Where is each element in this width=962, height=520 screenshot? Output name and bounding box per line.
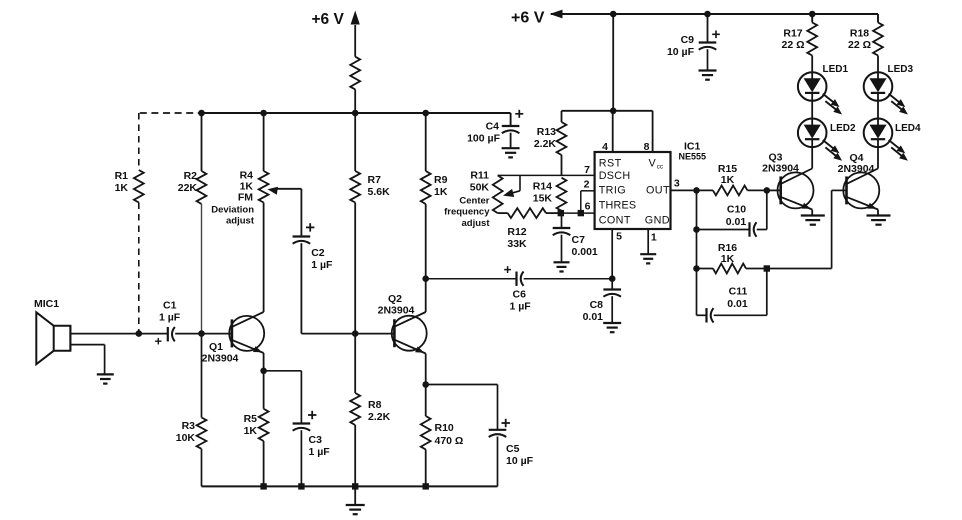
wire Q2 emitter to C5: [426, 384, 498, 386]
svg-text:C3: C3: [309, 434, 323, 446]
wire R18 to LED3: [877, 56, 879, 73]
transistor Q3 2N3904: [778, 172, 814, 208]
wire top rail: [202, 112, 511, 114]
wire top rail dashed segment: [140, 112, 202, 114]
svg-text:1 µF: 1 µF: [510, 301, 532, 313]
svg-text:LED4: LED4: [895, 123, 921, 134]
node R15/C10: [764, 187, 771, 194]
svg-text:50K: 50K: [470, 182, 490, 194]
wire pin1 stub: [647, 229, 649, 254]
ground C9: [707, 49, 709, 70]
svg-text:R1: R1: [115, 170, 129, 182]
resistor R15 1K: [697, 189, 714, 191]
svg-text:C10: C10: [727, 204, 746, 216]
svg-text:R14: R14: [533, 181, 552, 193]
svg-text:cc: cc: [657, 163, 664, 170]
wire +6V drop to pin4/8: [612, 14, 614, 111]
wire bottom rail: [202, 485, 498, 487]
ground bottom rail: [354, 486, 356, 504]
svg-text:2N3904: 2N3904: [762, 163, 799, 175]
resistor unlabeled (supply): [350, 57, 360, 90]
svg-text:C4: C4: [486, 121, 500, 133]
svg-text:5.6K: 5.6K: [368, 186, 391, 198]
svg-text:Center: Center: [459, 196, 489, 207]
IC U1 NE555 box: [595, 152, 671, 229]
node TRIG stub: [578, 210, 584, 216]
svg-text:NE555: NE555: [679, 152, 707, 162]
svg-text:LED1: LED1: [823, 64, 849, 75]
wire Q2 emitter down: [425, 354, 427, 385]
svg-text:1K: 1K: [721, 174, 735, 186]
svg-text:2.2K: 2.2K: [368, 411, 391, 423]
svg-text:LED3: LED3: [888, 64, 914, 75]
svg-text:6: 6: [585, 201, 591, 213]
capacitor C10 0.01: [697, 229, 750, 231]
node C6/C8/pin5: [609, 275, 616, 282]
resistor R13 2.2K: [561, 111, 563, 122]
svg-text:1 µF: 1 µF: [159, 312, 181, 324]
wire R17 to LED1: [811, 56, 813, 73]
node bottom R8 ground: [352, 483, 358, 489]
resistor R1 1K (dashed leads): [138, 113, 140, 170]
svg-text:R9: R9: [434, 174, 448, 186]
node Q2 base: [352, 330, 359, 337]
wire MIC1 top lead: [70, 333, 138, 335]
svg-text:8: 8: [644, 141, 650, 153]
svg-text:R17: R17: [783, 28, 802, 40]
wire pin 7 DSCH row: [498, 174, 595, 176]
node R1-mic: [136, 330, 143, 337]
potentiometer R4 1K FM Deviation adjust: [263, 113, 265, 171]
svg-text:C8: C8: [590, 299, 604, 311]
svg-text:R10: R10: [435, 422, 454, 434]
wire pin8 top link: [562, 110, 653, 112]
wire pin2 TRIG stub: [580, 191, 582, 213]
potentiometer R11 50K Center frequency adjust: [493, 175, 503, 213]
wire C6 to C8 node: [524, 278, 613, 280]
svg-text:0.001: 0.001: [572, 246, 598, 258]
capacitor C1 1 uF: [139, 333, 168, 335]
node rail-R9: [422, 110, 429, 117]
capacitor C2 1 uF: [293, 235, 311, 237]
node rail R17: [809, 11, 816, 18]
LED LED4: [864, 119, 893, 148]
wire OUT node down: [696, 190, 698, 315]
wiper arrow R4: [268, 187, 279, 195]
svg-text:2N3904: 2N3904: [202, 353, 239, 365]
svg-text:R8: R8: [368, 399, 382, 411]
capacitor C5 10 uF: [489, 429, 507, 431]
svg-text:+6 V: +6 V: [312, 11, 345, 28]
wire R16 row to Q4 base column: [767, 268, 832, 270]
svg-text:5: 5: [616, 231, 622, 243]
resistor R7 5.6K: [354, 113, 356, 171]
node Q1 base / R2 R3: [198, 330, 205, 337]
svg-text:Q2: Q2: [388, 293, 402, 305]
svg-text:OUT: OUT: [646, 184, 670, 196]
node Q2 emitter: [422, 381, 429, 388]
wire R2 to base node: [201, 204, 203, 334]
svg-text:FM: FM: [238, 192, 253, 204]
svg-text:15K: 15K: [533, 193, 553, 205]
svg-text:RST: RST: [599, 158, 622, 170]
svg-text:2: 2: [584, 179, 590, 191]
svg-text:33K: 33K: [507, 238, 527, 250]
svg-text:7: 7: [584, 164, 590, 176]
svg-text:C6: C6: [513, 289, 527, 301]
svg-text:10K: 10K: [176, 432, 196, 444]
svg-text:22 Ω: 22 Ω: [848, 39, 871, 51]
capacitor C11 0.01: [697, 314, 707, 316]
wire Q4 base link: [832, 189, 847, 191]
node rail-R4: [260, 110, 267, 117]
svg-text:0.01: 0.01: [727, 298, 748, 310]
capacitor C9 10 uF: [707, 14, 709, 43]
transistor Q4 2N3904: [843, 172, 879, 208]
resistor R3 10K: [201, 334, 203, 418]
svg-text:22K: 22K: [178, 182, 198, 194]
svg-text:1: 1: [651, 232, 657, 244]
transistor Q2 2N3904: [392, 316, 427, 351]
ground C8: [611, 296, 613, 322]
wire LED4 to Q4 collector: [877, 147, 879, 168]
svg-text:C11: C11: [729, 286, 748, 298]
ground MIC1: [97, 373, 114, 375]
resistor R12 33K: [498, 212, 508, 214]
svg-text:4: 4: [602, 141, 608, 153]
svg-text:1 µF: 1 µF: [309, 446, 331, 458]
microphone MIC1: [36, 312, 70, 364]
wire top-right +6V rail: [551, 13, 878, 15]
wire LED2 to Q3 collector: [811, 147, 813, 168]
svg-text:1K: 1K: [244, 425, 258, 437]
wire C1 to Q1 base: [175, 333, 232, 335]
svg-text:22 Ω: 22 Ω: [781, 39, 804, 51]
wire +6V arrow up: [354, 25, 356, 57]
node rail pin4/8 drop: [610, 11, 617, 18]
svg-text:GND: GND: [645, 214, 670, 226]
svg-text:10 µF: 10 µF: [667, 46, 695, 58]
resistor R17 22 ohm: [811, 14, 813, 23]
node C10 left: [693, 226, 700, 233]
svg-text:R18: R18: [850, 28, 869, 40]
ground Q3 emitter: [811, 210, 813, 216]
svg-text:0.01: 0.01: [726, 216, 747, 228]
svg-text:DSCH: DSCH: [599, 170, 631, 182]
wire Q1 emitter to C3: [264, 370, 302, 372]
capacitor C6 1 uF: [515, 272, 517, 286]
transistor Q1 2N3904: [229, 316, 264, 351]
svg-text:adjust: adjust: [226, 216, 255, 227]
capacitor C8 0.01: [611, 279, 613, 290]
wire R7 to Q2 base node: [354, 203, 356, 334]
node bottom C3: [298, 483, 304, 489]
wire R9 to Q2 collector node: [425, 204, 427, 279]
wire Q2 base: [355, 333, 394, 335]
node rail C9: [704, 11, 711, 18]
svg-text:0.01: 0.01: [583, 311, 604, 323]
svg-text:3: 3: [674, 178, 680, 190]
node R16/C11 right: [764, 265, 770, 271]
svg-text:V: V: [649, 158, 657, 170]
wire LED3 to LED4: [877, 101, 879, 119]
resistor R8 2.2K: [354, 334, 356, 393]
wire supply resistor to rail: [354, 89, 356, 113]
svg-text:R13: R13: [537, 126, 556, 138]
svg-text:R5: R5: [244, 413, 258, 425]
wire R15 to Q3 base: [767, 189, 781, 191]
wire Q2 collector row: [426, 278, 517, 280]
svg-text:MIC1: MIC1: [34, 298, 59, 310]
svg-text:10 µF: 10 µF: [506, 455, 534, 467]
node rail-R7 +6V: [352, 110, 359, 117]
wire Q2 collector up: [425, 279, 427, 312]
wire MIC1 bottom lead to ground: [70, 344, 104, 346]
svg-text:frequency: frequency: [444, 207, 490, 218]
wire C2 to Q2 base node: [300, 243, 302, 333]
svg-text:TRIG: TRIG: [599, 184, 626, 196]
resistor R18 22 ohm: [877, 14, 879, 23]
svg-text:R12: R12: [507, 226, 526, 238]
ground C7: [561, 235, 563, 262]
svg-text:470 Ω: 470 Ω: [435, 435, 464, 447]
svg-text:THRES: THRES: [599, 199, 637, 211]
node +6V to pins 4/8: [610, 108, 617, 115]
svg-text:C2: C2: [311, 247, 325, 259]
ground C4: [510, 133, 512, 148]
capacitor C4 100 uF: [510, 113, 512, 126]
svg-text:R7: R7: [368, 174, 382, 186]
node bottom R10: [423, 483, 429, 489]
resistor R5 1K: [263, 371, 265, 409]
wire pin5 stub: [611, 229, 613, 279]
svg-text:1K: 1K: [721, 253, 735, 265]
LED LED3: [864, 72, 893, 101]
wire pin6 row: [561, 212, 595, 214]
wire pin4 stub: [612, 111, 614, 152]
svg-text:C9: C9: [681, 34, 695, 46]
svg-text:1K: 1K: [434, 186, 448, 198]
LED LED2: [798, 119, 827, 148]
wiper R11: [519, 175, 521, 190]
resistor R9 1K: [425, 113, 427, 171]
svg-text:R11: R11: [470, 170, 489, 182]
svg-text:100 µF: 100 µF: [467, 133, 500, 145]
wire Q1 emitter down: [263, 353, 265, 371]
node rail-R2: [198, 110, 205, 117]
resistor R14 15K: [557, 178, 567, 211]
node Q2 collector: [422, 275, 429, 282]
svg-text:R3: R3: [182, 420, 196, 432]
capacitor C3 1 uF: [293, 422, 311, 424]
svg-text:CONT: CONT: [599, 214, 631, 226]
node bottom R5: [260, 483, 266, 489]
svg-text:2.2K: 2.2K: [534, 138, 557, 150]
capacitor C7 0.001: [561, 213, 563, 228]
wire LED1 to LED2: [811, 101, 813, 119]
resistor R10 470 ohm: [425, 385, 427, 417]
LED LED1: [798, 72, 827, 101]
svg-text:1 µF: 1 µF: [311, 259, 333, 271]
svg-text:+6 V: +6 V: [511, 10, 545, 27]
ground Q4 emitter: [877, 210, 879, 216]
svg-text:LED2: LED2: [830, 123, 856, 134]
node OUT: [693, 187, 700, 194]
svg-text:2N3904: 2N3904: [378, 305, 415, 317]
node R12/R14/C7: [558, 210, 564, 216]
ground pin1 GND: [640, 253, 656, 255]
svg-text:C1: C1: [163, 300, 177, 312]
svg-text:Deviation: Deviation: [211, 205, 254, 216]
wire pin3 OUT: [671, 189, 697, 191]
node Q1 emitter: [260, 368, 267, 375]
resistor R2 22K: [201, 113, 203, 171]
svg-text:2N3904: 2N3904: [838, 163, 875, 175]
svg-text:Q1: Q1: [209, 341, 223, 353]
svg-text:1K: 1K: [115, 182, 129, 194]
svg-text:adjust: adjust: [462, 218, 491, 229]
wire Q1 collector to R4: [263, 203, 265, 313]
svg-text:C5: C5: [506, 443, 520, 455]
svg-text:C7: C7: [572, 234, 586, 246]
svg-text:R2: R2: [184, 170, 198, 182]
resistor R16 1K: [697, 268, 714, 270]
wire R4 wiper to C2: [300, 189, 302, 237]
node R16 left: [693, 265, 700, 272]
